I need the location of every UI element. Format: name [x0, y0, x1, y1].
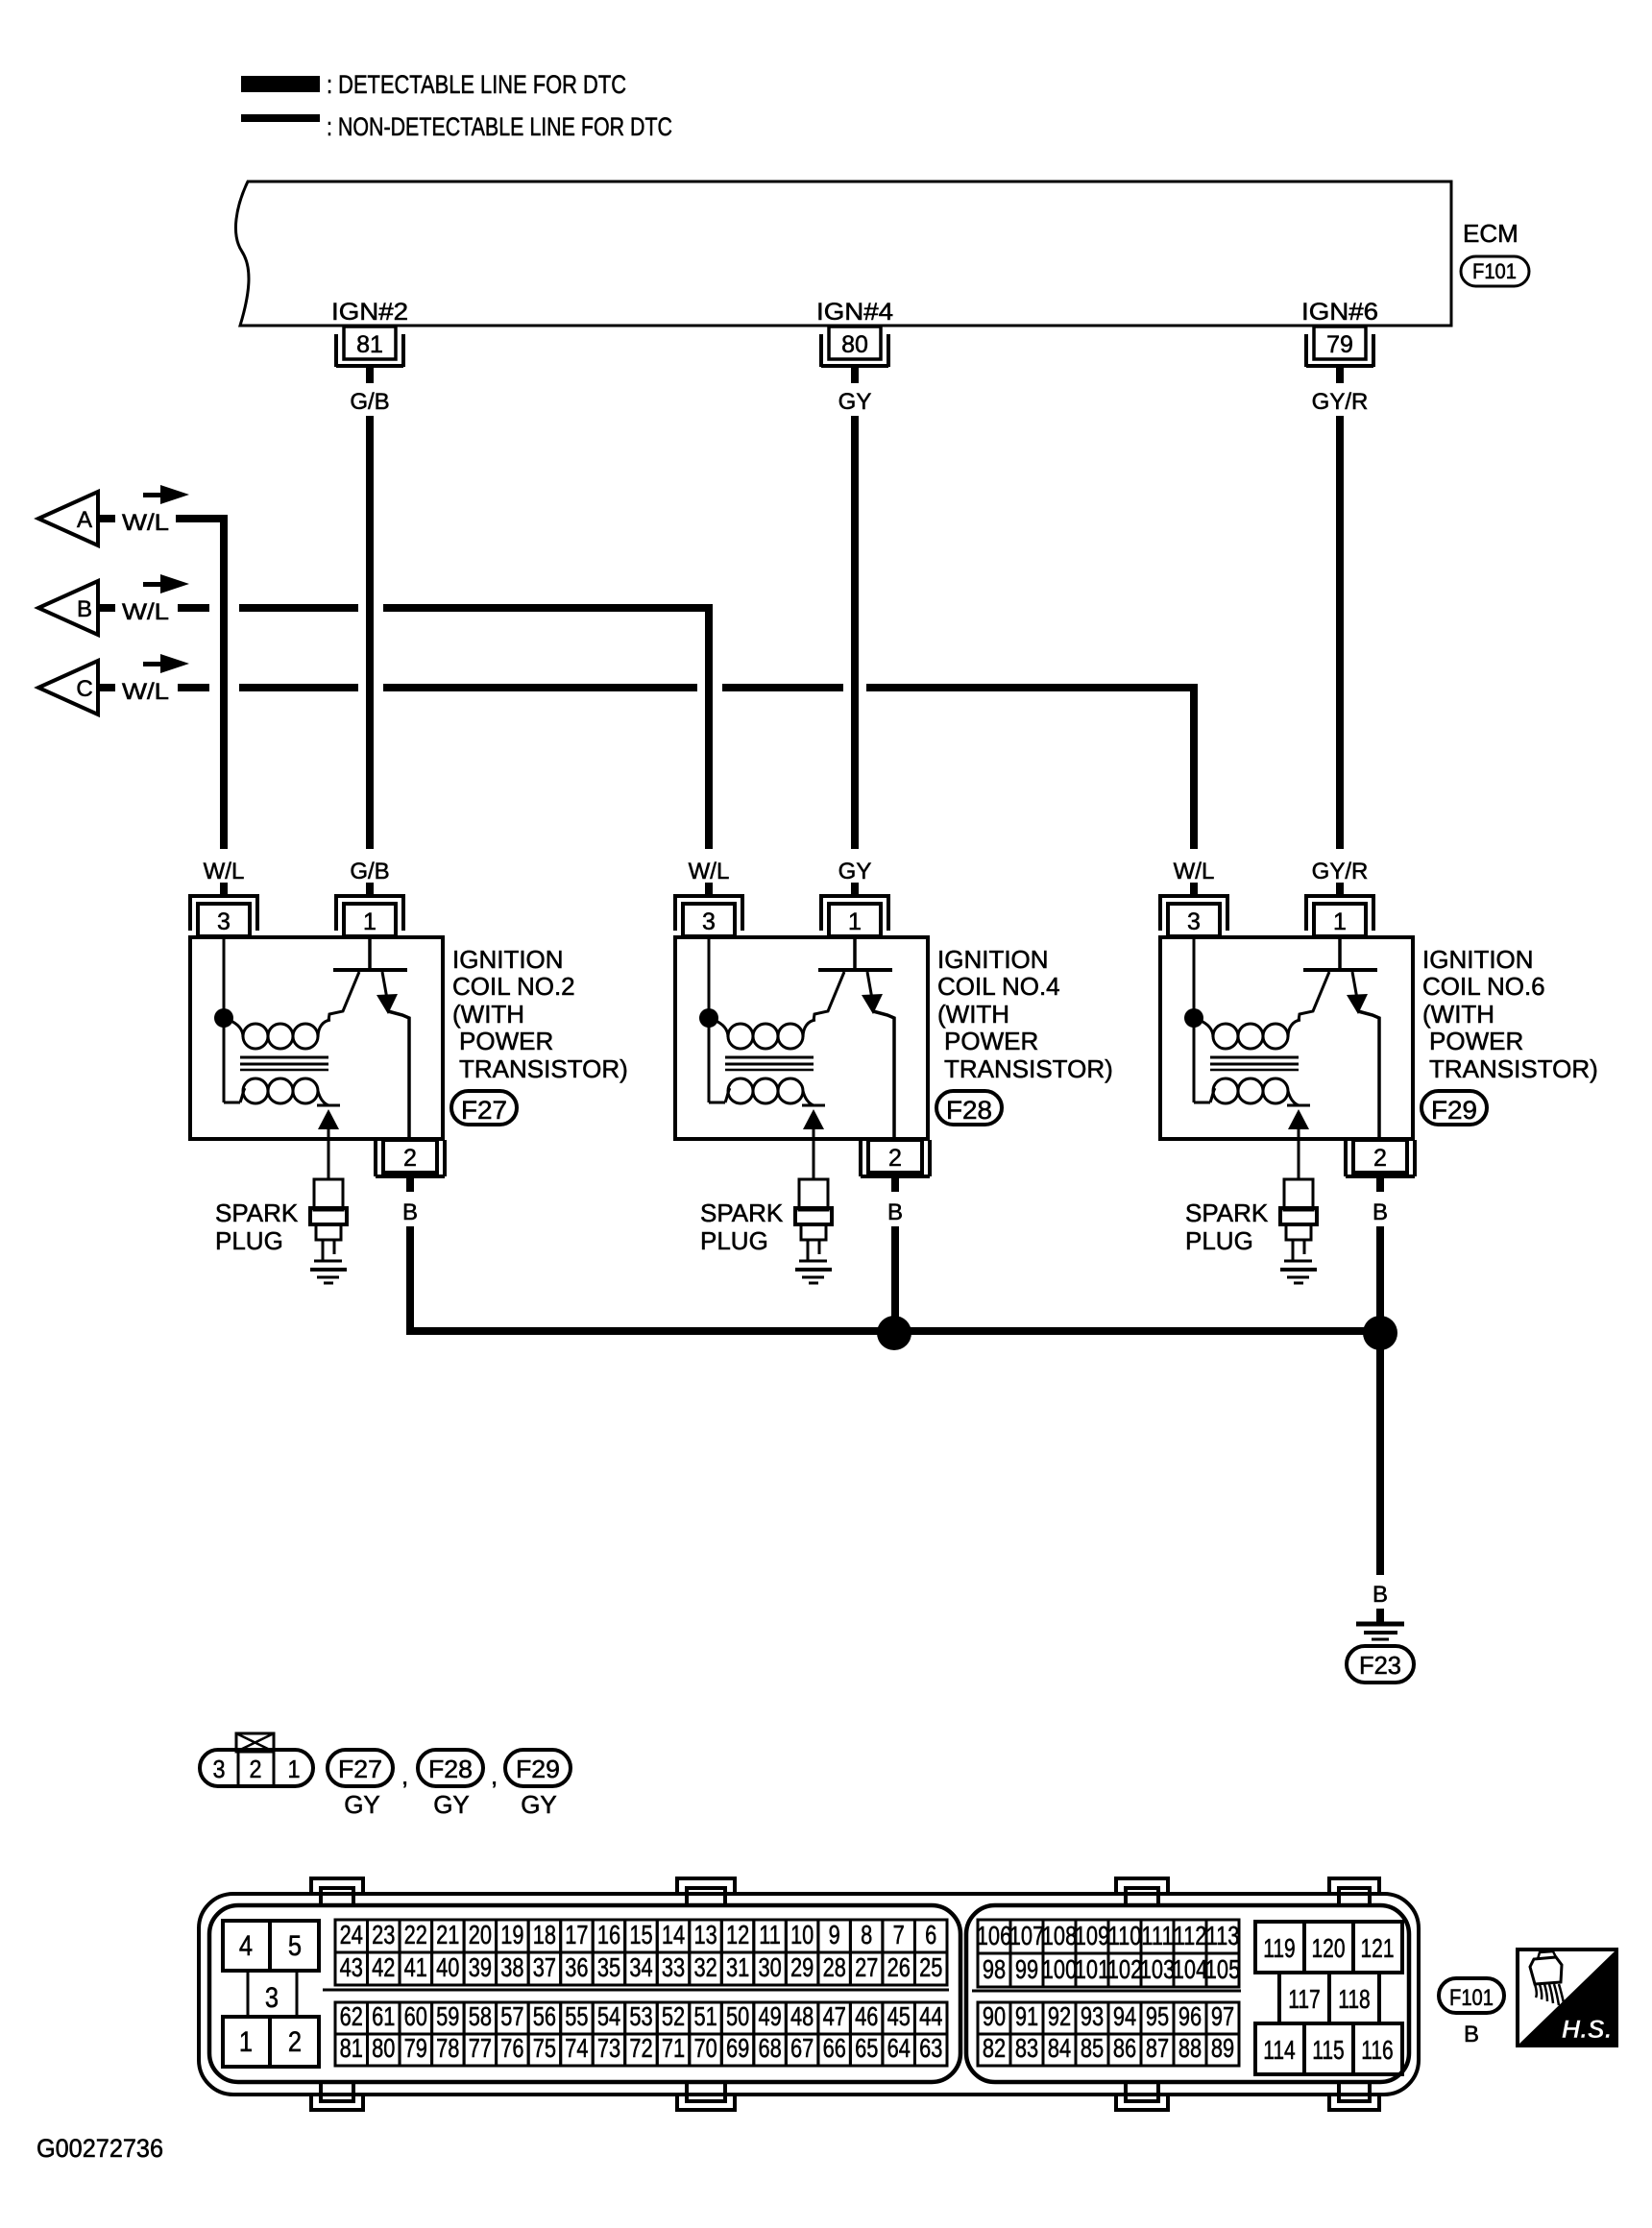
- svg-text:W/L: W/L: [122, 679, 169, 705]
- svg-text:35: 35: [597, 1952, 620, 1982]
- ground connector ref F23: [1347, 1646, 1414, 1683]
- housing bottom tab 2: [677, 2084, 735, 2110]
- ECM connector ref F101: [1461, 256, 1529, 286]
- svg-text:2: 2: [288, 2025, 302, 2057]
- svg-text:94: 94: [1113, 2001, 1136, 2031]
- svg-text:44: 44: [919, 2001, 942, 2031]
- svg-text:(WITH: (WITH: [452, 1000, 524, 1029]
- wire W/L from C: vertical run down to coil no.6 pin 3: [1190, 684, 1198, 849]
- coil NO.4 pin 1 terminal: [821, 894, 888, 936]
- svg-text:3: 3: [265, 1981, 279, 2013]
- right connector cavity outline: [966, 1905, 1409, 2082]
- scan double line under upper right grid: [972, 1990, 1241, 1993]
- wire W/L from A: horizontal run: [176, 515, 228, 522]
- svg-text:3: 3: [1187, 908, 1201, 935]
- svg-text:2: 2: [888, 1145, 902, 1172]
- wire G/B from ECM pin 81 down to ignition coil: [366, 416, 374, 849]
- spark plug label (coil NO.4): [700, 1199, 784, 1255]
- svg-text:23: 23: [372, 1920, 395, 1949]
- housing bottom tab 3: [1116, 2084, 1168, 2110]
- svg-text:W/L: W/L: [204, 859, 245, 884]
- coil NO.6 pin 3 terminal: [1160, 894, 1227, 936]
- svg-text:39: 39: [469, 1952, 492, 1982]
- scan double line under upper left grid: [323, 1989, 949, 1992]
- svg-text:15: 15: [629, 1920, 652, 1949]
- coil NO.2 pin 3 terminal: [190, 894, 257, 936]
- svg-text:3: 3: [702, 908, 716, 935]
- svg-text:GY/R: GY/R: [1312, 859, 1369, 884]
- power transistor Q2 emitter: [328, 972, 359, 1021]
- svg-text:87: 87: [1146, 2033, 1169, 2063]
- spark plug label (coil NO.2): [215, 1199, 299, 1255]
- wire B from coil NO.4 pin 2 down to ground bus: [891, 1226, 899, 1335]
- svg-text:IGNITION: IGNITION: [452, 945, 564, 974]
- coil NO.4 connector ref F28: [936, 1091, 1002, 1125]
- legend: non-detectable line sample bar: [241, 114, 320, 122]
- wire W/L from B: horizontal segment 1: [178, 604, 209, 612]
- svg-text:45: 45: [887, 2001, 911, 2031]
- svg-text:102: 102: [1107, 1954, 1142, 1984]
- wire stub below coil NO.2 pin 2: [406, 1176, 414, 1192]
- svg-text:8: 8: [861, 1920, 872, 1949]
- coil NO.6 wire pin3 to windings: [1194, 937, 1210, 1102]
- coil NO.2 pin 2 terminal: [376, 1140, 445, 1176]
- junction dot at coil NO.4 B wire: [877, 1316, 911, 1350]
- wire stub above coil pin 1 (G/B): [366, 883, 374, 896]
- connector face keying box with X: [236, 1733, 274, 1752]
- svg-text:116: 116: [1361, 2036, 1393, 2066]
- svg-text:54: 54: [597, 2001, 620, 2031]
- svg-text:1: 1: [848, 908, 862, 935]
- svg-text:109: 109: [1075, 1921, 1109, 1950]
- svg-text:3: 3: [217, 908, 231, 935]
- svg-text:SPARK: SPARK: [1185, 1199, 1269, 1227]
- coil NO.4 primary winding: [714, 1020, 815, 1049]
- svg-text:115: 115: [1312, 2036, 1344, 2066]
- legend: detectable line sample bar: [241, 76, 320, 92]
- wire B from coil NO.2 pin 2 down to ground bus: [406, 1226, 414, 1335]
- coil NO.2 transformer core: [240, 1057, 328, 1070]
- coil NO.2 connector ref F27: [451, 1091, 517, 1125]
- svg-text:53: 53: [629, 2001, 652, 2031]
- svg-text:,: ,: [401, 1761, 408, 1790]
- coil NO.2 spark gap arrow: [318, 1109, 339, 1129]
- svg-text:79: 79: [404, 2033, 427, 2063]
- H.S. harness side view logo: [1518, 1949, 1616, 2046]
- right cavity pin grid upper (terminals 106-113 / 98-105): [977, 1920, 1240, 1987]
- svg-text:91: 91: [1015, 2001, 1038, 2031]
- svg-text:81: 81: [340, 2033, 363, 2063]
- svg-text:PLUG: PLUG: [215, 1226, 283, 1255]
- wire GY from ECM pin 80 down to ignition coil: [851, 416, 859, 849]
- svg-text:88: 88: [1178, 2033, 1202, 2063]
- svg-text:111: 111: [1141, 1921, 1173, 1950]
- stub from triangle A: [98, 515, 115, 522]
- svg-text:ECM: ECM: [1463, 219, 1518, 248]
- svg-text:G/B: G/B: [350, 859, 389, 884]
- svg-text:114: 114: [1263, 2036, 1296, 2066]
- svg-text:61: 61: [372, 2001, 395, 2031]
- svg-text:48: 48: [790, 2001, 814, 2031]
- svg-text:36: 36: [565, 1952, 588, 1982]
- svg-text:72: 72: [629, 2033, 652, 2063]
- svg-text:1: 1: [239, 2025, 253, 2057]
- svg-text:55: 55: [565, 2001, 588, 2031]
- off-page connector triangle B: [38, 581, 98, 635]
- svg-text:26: 26: [887, 1952, 911, 1982]
- connector ref F29 (face view): [505, 1750, 571, 1786]
- svg-text:65: 65: [855, 2033, 878, 2063]
- svg-text:51: 51: [693, 2001, 717, 2031]
- coil NO.2 spark gap bar: [317, 1104, 340, 1107]
- ground bus wire B horizontal: [406, 1327, 1380, 1335]
- coil NO.6 connector ref F29: [1421, 1091, 1487, 1125]
- svg-text:IGNITION: IGNITION: [937, 945, 1049, 974]
- power transistor Q4 emitter: [814, 972, 844, 1021]
- coil NO.4 component label text: [937, 945, 1113, 1083]
- wire W/L from B: horizontal segment 2: [239, 604, 358, 612]
- coil NO.2 high tension lead to spark plug: [328, 1129, 330, 1179]
- svg-text:5: 5: [288, 1929, 302, 1961]
- svg-text:107: 107: [1009, 1921, 1044, 1950]
- coil NO.6 junction dot (pin3 to primary): [1184, 1008, 1203, 1028]
- svg-text:29: 29: [790, 1952, 814, 1982]
- svg-text:34: 34: [629, 1952, 652, 1982]
- ignition coil NO.4 box (component F28): [675, 937, 928, 1139]
- stub from triangle C: [98, 684, 115, 691]
- coil NO.6 pin 1 terminal: [1306, 894, 1373, 936]
- svg-text:16: 16: [597, 1920, 620, 1949]
- ECM box U1 with torn left edge: [235, 182, 1451, 326]
- svg-text:COIL NO.2: COIL NO.2: [452, 972, 575, 1001]
- wire stub below pin 79: [1336, 368, 1344, 383]
- wire W/L from C: horizontal segment 5: [866, 684, 1196, 691]
- svg-text:79: 79: [1326, 331, 1353, 358]
- coil NO.2 wire pin3 to windings: [224, 937, 240, 1102]
- wire W/L from B: horizontal segment 3: [383, 604, 713, 612]
- svg-text:77: 77: [469, 2033, 492, 2063]
- wire stub above coil pin 3: [220, 883, 228, 896]
- svg-text:110: 110: [1108, 1921, 1142, 1950]
- svg-text:32: 32: [693, 1952, 717, 1982]
- svg-text:67: 67: [790, 2033, 814, 2063]
- svg-text:62: 62: [340, 2001, 363, 2031]
- off-page connector triangle C: [38, 661, 98, 714]
- power transistor Q4 base wire from pin 1: [853, 937, 857, 970]
- svg-text:82: 82: [983, 2033, 1006, 2063]
- stub from triangle B: [98, 604, 115, 612]
- svg-text:PLUG: PLUG: [700, 1226, 768, 1255]
- direction arrow (row B): [143, 574, 189, 593]
- svg-text:63: 63: [919, 2033, 942, 2063]
- coil NO.4 high tension lead to spark plug: [813, 1129, 815, 1179]
- wire W/L from C: horizontal segment 1: [178, 684, 209, 691]
- svg-text:98: 98: [983, 1954, 1006, 1984]
- svg-text:(WITH: (WITH: [1422, 1000, 1494, 1029]
- svg-text:90: 90: [983, 2001, 1006, 2031]
- left connector cavity outline: [209, 1905, 960, 2082]
- svg-text:TRANSISTOR): TRANSISTOR): [944, 1054, 1113, 1083]
- svg-text:104: 104: [1173, 1954, 1207, 1984]
- power transistor Q2 base wire from pin 1: [368, 937, 372, 970]
- housing bottom tab 1: [311, 2084, 363, 2110]
- svg-text:POWER: POWER: [944, 1027, 1038, 1055]
- svg-text:46: 46: [855, 2001, 878, 2031]
- svg-text:86: 86: [1113, 2033, 1136, 2063]
- power transistor Q6 collector with arrowhead: [1347, 972, 1379, 1140]
- connector face view pill 3-2-1: [200, 1750, 313, 1786]
- spark plug for coil NO.2: [310, 1179, 347, 1283]
- ignition coil NO.6 box (component F29): [1160, 937, 1413, 1139]
- svg-text:2: 2: [249, 1756, 261, 1783]
- wire stub above coil pin 3: [705, 883, 713, 896]
- wire stub above coil pin 1 (GY/R): [1336, 883, 1344, 896]
- svg-text:24: 24: [340, 1920, 363, 1949]
- svg-text:(WITH: (WITH: [937, 1000, 1009, 1029]
- svg-text:F28: F28: [946, 1096, 992, 1125]
- svg-text:: DETECTABLE LINE FOR DTC: : DETECTABLE LINE FOR DTC: [327, 70, 626, 99]
- svg-text:6: 6: [925, 1920, 936, 1949]
- svg-text:PLUG: PLUG: [1185, 1226, 1253, 1255]
- svg-text:9: 9: [829, 1920, 840, 1949]
- housing top tab 1: [311, 1878, 363, 1905]
- svg-text:66: 66: [823, 2033, 846, 2063]
- svg-text:78: 78: [436, 2033, 459, 2063]
- svg-text:G/B: G/B: [350, 389, 389, 415]
- svg-text:19: 19: [500, 1920, 523, 1949]
- svg-text:B: B: [77, 596, 92, 622]
- left cavity pin grid lower (terminals 62-44 / 81-63): [335, 2001, 947, 2066]
- aux terminal boxes 1 and 2: [223, 2017, 319, 2067]
- svg-text:112: 112: [1174, 1921, 1207, 1950]
- svg-text:F29: F29: [516, 1755, 560, 1783]
- svg-text:GY: GY: [838, 389, 872, 415]
- svg-text:,: ,: [491, 1761, 498, 1790]
- svg-text:1: 1: [1333, 908, 1347, 935]
- housing top tab 2: [677, 1878, 735, 1905]
- ECM connector housing outline: [199, 1894, 1419, 2095]
- large terminals 114 115 116: [1255, 2023, 1402, 2074]
- svg-text:11: 11: [759, 1920, 781, 1949]
- connector ref F28 (face view): [418, 1750, 483, 1786]
- svg-text:100: 100: [1042, 1954, 1077, 1984]
- svg-text:GY: GY: [433, 1790, 470, 1819]
- svg-text:80: 80: [372, 2033, 395, 2063]
- svg-text:59: 59: [436, 2001, 459, 2031]
- coil NO.4 pin 3 terminal: [675, 894, 742, 936]
- svg-text:121: 121: [1360, 1934, 1394, 1964]
- svg-text:W/L: W/L: [689, 859, 730, 884]
- svg-text:96: 96: [1178, 2001, 1202, 2031]
- svg-text:38: 38: [500, 1952, 523, 1982]
- coil NO.4 spark gap arrow: [803, 1109, 824, 1129]
- direction arrow (row A): [143, 485, 189, 504]
- svg-text:85: 85: [1081, 2033, 1104, 2063]
- coil NO.6 high tension lead to spark plug: [1298, 1129, 1300, 1179]
- svg-text:7: 7: [893, 1920, 905, 1949]
- wire B from coil NO.6 pin 2 down to ground bus: [1376, 1226, 1384, 1335]
- coil NO.6 spark gap bar: [1287, 1104, 1310, 1107]
- wire stub below pin 80: [851, 368, 859, 383]
- svg-text:89: 89: [1211, 2033, 1234, 2063]
- wire stub below pin 81: [366, 368, 374, 383]
- aux terminal boxes 4 and 5: [223, 1921, 319, 1971]
- wire B from junction down to ground: [1376, 1335, 1384, 1575]
- housing top tab 3: [1116, 1878, 1168, 1905]
- svg-text:73: 73: [597, 2033, 620, 2063]
- ignition coil NO.2 box (component F27): [190, 937, 443, 1139]
- svg-text:99: 99: [1015, 1954, 1038, 1984]
- left cavity pin grid upper (terminals 24-6 / 43-25): [335, 1920, 947, 1985]
- svg-text:25: 25: [919, 1952, 942, 1982]
- coil NO.4 secondary winding: [725, 1078, 814, 1105]
- svg-text:50: 50: [726, 2001, 749, 2031]
- svg-text:103: 103: [1140, 1954, 1175, 1984]
- svg-text:COIL NO.4: COIL NO.4: [937, 972, 1060, 1001]
- ECM pin 79 terminal box: [1306, 327, 1373, 367]
- coil NO.2 component label text: [452, 945, 628, 1083]
- ECM pin 81 terminal box: [336, 327, 403, 367]
- svg-text:60: 60: [404, 2001, 427, 2031]
- svg-text:76: 76: [500, 2033, 523, 2063]
- coil NO.6 secondary winding: [1210, 1078, 1299, 1105]
- svg-text:30: 30: [758, 1952, 781, 1982]
- wire W/L from C: horizontal segment 4: [722, 684, 843, 691]
- svg-text:28: 28: [823, 1952, 846, 1982]
- svg-text:F27: F27: [338, 1755, 382, 1783]
- svg-text:113: 113: [1206, 1921, 1240, 1950]
- svg-text:F29: F29: [1431, 1096, 1477, 1125]
- svg-text:1: 1: [287, 1756, 300, 1783]
- coil NO.6 transformer core: [1210, 1057, 1299, 1070]
- svg-text:B: B: [402, 1199, 418, 1225]
- right cavity pin grid lower (terminals 90-97 / 82-89): [978, 2001, 1239, 2066]
- svg-text:H.S.: H.S.: [1562, 2015, 1613, 2044]
- svg-text:3: 3: [212, 1756, 225, 1783]
- svg-text:120: 120: [1311, 1934, 1345, 1964]
- svg-text:F23: F23: [1359, 1651, 1401, 1680]
- large terminals 119 120 121: [1255, 1922, 1402, 1973]
- svg-text:41: 41: [404, 1952, 427, 1982]
- svg-text:70: 70: [693, 2033, 717, 2063]
- coil NO.4 transformer core: [725, 1057, 814, 1070]
- svg-text:SPARK: SPARK: [215, 1199, 299, 1227]
- svg-text:17: 17: [565, 1920, 588, 1949]
- coil NO.4 spark gap bar: [802, 1104, 825, 1107]
- svg-text:: NON-DETECTABLE LINE FOR DTC: : NON-DETECTABLE LINE FOR DTC: [327, 112, 672, 141]
- coil NO.6 pin 2 terminal: [1346, 1140, 1415, 1176]
- svg-text:B: B: [887, 1199, 903, 1225]
- spark plug for coil NO.6: [1280, 1179, 1317, 1283]
- svg-text:58: 58: [469, 2001, 492, 2031]
- svg-text:C: C: [76, 676, 92, 702]
- svg-text:42: 42: [372, 1952, 395, 1982]
- junction dot at coil NO.6 B wire: [1363, 1316, 1397, 1350]
- svg-text:68: 68: [758, 2033, 781, 2063]
- housing top tab 4: [1329, 1878, 1379, 1905]
- svg-text:GY/R: GY/R: [1312, 389, 1369, 415]
- svg-text:COIL NO.6: COIL NO.6: [1422, 972, 1545, 1001]
- svg-text:POWER: POWER: [459, 1027, 553, 1055]
- svg-text:B: B: [1373, 1582, 1388, 1608]
- svg-text:97: 97: [1211, 2001, 1234, 2031]
- svg-text:F101: F101: [1472, 259, 1517, 283]
- svg-text:TRANSISTOR): TRANSISTOR): [1429, 1054, 1598, 1083]
- power transistor Q4 base bar: [818, 968, 892, 972]
- svg-text:71: 71: [662, 2033, 685, 2063]
- coil NO.6 spark gap arrow: [1288, 1109, 1309, 1129]
- wire stub below coil NO.4 pin 2: [891, 1176, 899, 1192]
- large terminals 117 118: [1279, 1973, 1379, 2023]
- svg-text:W/L: W/L: [122, 599, 169, 625]
- svg-text:49: 49: [758, 2001, 781, 2031]
- coil NO.2 secondary winding: [240, 1078, 328, 1105]
- svg-text:B: B: [1373, 1199, 1388, 1225]
- svg-text:G00272736: G00272736: [36, 2134, 163, 2163]
- coil NO.2 primary winding: [229, 1020, 330, 1049]
- svg-text:37: 37: [533, 1952, 556, 1982]
- svg-text:56: 56: [533, 2001, 556, 2031]
- connector ref F101 (pinout): [1439, 1978, 1504, 2013]
- svg-text:F27: F27: [461, 1096, 507, 1125]
- aux terminal 3 link lines and numeral: [248, 1971, 297, 2017]
- power transistor Q6 base wire from pin 1: [1338, 937, 1342, 970]
- svg-text:69: 69: [726, 2033, 749, 2063]
- coil NO.6 component label text: [1422, 945, 1598, 1083]
- svg-text:108: 108: [1042, 1921, 1077, 1950]
- svg-text:GY: GY: [838, 859, 872, 884]
- svg-text:F28: F28: [428, 1755, 473, 1783]
- svg-text:W/L: W/L: [1174, 859, 1215, 884]
- svg-text:64: 64: [887, 2033, 911, 2063]
- svg-text:31: 31: [726, 1952, 749, 1982]
- svg-text:40: 40: [436, 1952, 459, 1982]
- svg-text:18: 18: [533, 1920, 556, 1949]
- svg-text:B: B: [1464, 2022, 1479, 2047]
- svg-text:27: 27: [855, 1952, 878, 1982]
- wire stub above ground: [1376, 1609, 1384, 1622]
- coil NO.2 junction dot (pin3 to primary): [214, 1008, 233, 1028]
- svg-text:74: 74: [565, 2033, 588, 2063]
- power transistor Q4 collector with arrowhead: [862, 972, 894, 1140]
- svg-text:13: 13: [693, 1920, 717, 1949]
- ground symbol: [1356, 1624, 1404, 1639]
- power transistor Q2 collector with arrowhead: [377, 972, 409, 1140]
- ECM pin 80 terminal box: [821, 327, 888, 367]
- power transistor Q6 base bar: [1303, 968, 1377, 972]
- svg-text:2: 2: [1373, 1145, 1387, 1172]
- svg-text:93: 93: [1081, 2001, 1104, 2031]
- spark plug for coil NO.4: [795, 1179, 832, 1283]
- svg-text:92: 92: [1048, 2001, 1071, 2031]
- svg-text:21: 21: [436, 1920, 459, 1949]
- svg-text:105: 105: [1205, 1954, 1240, 1984]
- spark plug label (coil NO.6): [1185, 1199, 1269, 1255]
- svg-text:47: 47: [823, 2001, 846, 2031]
- svg-text:83: 83: [1015, 2033, 1038, 2063]
- svg-text:22: 22: [404, 1920, 427, 1949]
- svg-text:43: 43: [340, 1952, 363, 1982]
- svg-text:IGN#6: IGN#6: [1301, 299, 1378, 326]
- svg-text:14: 14: [662, 1920, 685, 1949]
- connector ref F27 (face view): [328, 1750, 393, 1786]
- svg-text:4: 4: [239, 1929, 253, 1961]
- svg-text:IGN#2: IGN#2: [331, 299, 408, 326]
- svg-text:81: 81: [356, 331, 383, 358]
- housing bottom tab 4: [1329, 2084, 1379, 2110]
- wire stub below coil NO.6 pin 2: [1376, 1176, 1384, 1192]
- svg-text:POWER: POWER: [1429, 1027, 1523, 1055]
